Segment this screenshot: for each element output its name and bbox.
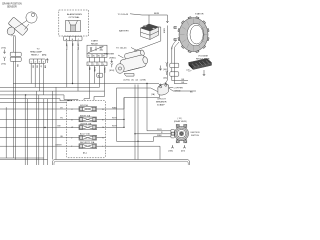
svg-text:86: 86 xyxy=(98,56,100,58)
starter terminal labels xyxy=(124,80,147,82)
headlamp wire labels xyxy=(31,66,45,69)
svg-text:(3): (3) xyxy=(131,80,134,82)
sensor inline connector 2 xyxy=(10,57,21,61)
svg-text:IGNITION: IGNITION xyxy=(191,132,200,134)
svg-text:ALARM SIREN: ALARM SIREN xyxy=(67,13,82,16)
feed to ignition from bus xyxy=(147,84,171,131)
sensor wires to bottom-left bus xyxy=(13,61,15,159)
headlamp wires down xyxy=(31,63,43,95)
crank position sensor label xyxy=(2,3,22,9)
svg-text:SENSOR: SENSOR xyxy=(7,7,17,9)
svg-text:[B+]: [B+] xyxy=(83,152,87,154)
svg-text:TN/GY: TN/GY xyxy=(103,67,105,74)
svg-text:(REAR VIEW): (REAR VIEW) xyxy=(174,120,187,123)
circuit breaker label xyxy=(156,99,167,107)
relay wire labels xyxy=(88,67,105,74)
svg-text:OPTIONAL: OPTIONAL xyxy=(69,16,81,19)
svg-text:(12V8): (12V8) xyxy=(140,80,146,82)
relay wires to bus xyxy=(90,66,105,99)
[R/BK] arrow right of relay xyxy=(110,58,116,63)
battery positive wire down to breaker xyxy=(166,26,167,83)
svg-text:(2): (2) xyxy=(136,80,139,82)
relay pin wires xyxy=(90,57,105,62)
start relay label xyxy=(91,40,99,46)
svg-text:STATOR: STATOR xyxy=(195,13,204,16)
fuse ACCY xyxy=(67,133,106,140)
svg-text:GY/BN: GY/BN xyxy=(76,44,78,51)
fuse LIGHTS xyxy=(67,122,106,129)
fuse SECURITY xyxy=(67,141,106,148)
start relay connector row 2 xyxy=(87,62,107,66)
svg-text:W/BK: W/BK xyxy=(93,67,95,73)
svg-text:4: 4 xyxy=(103,64,104,66)
svg-text:( 31 ): ( 31 ) xyxy=(178,118,183,120)
svg-text:SWITCH: SWITCH xyxy=(191,135,199,137)
fuse rows left wires xyxy=(0,109,67,146)
bus D wrap into fuse box top xyxy=(0,95,78,100)
siren wires down xyxy=(67,41,78,84)
bus F xyxy=(0,102,67,104)
circuit breaker xyxy=(157,82,169,95)
wire breaker to regulator xyxy=(169,88,196,91)
starter flange xyxy=(116,64,134,76)
security wire right xyxy=(106,146,161,159)
Y arrow label [TN] xyxy=(2,57,7,66)
bus C xyxy=(0,90,105,92)
battery positive riser xyxy=(148,15,150,24)
bottom left wires xyxy=(0,158,48,160)
battery right wire to starter xyxy=(134,27,161,51)
[GY] up arrow right of relay xyxy=(110,63,115,72)
bus E wrap into fuse box top xyxy=(0,99,72,101)
arrow above connector2 xyxy=(164,71,169,80)
bus B xyxy=(0,86,100,88)
extra wrap stubs into fuse top xyxy=(84,91,105,100)
headlamp arrow xyxy=(46,58,48,63)
fuse left wire labels xyxy=(56,107,64,146)
svg-text:[BN]: [BN] xyxy=(42,55,47,57)
crank position sensor xyxy=(6,12,38,37)
svg-text:3: 3 xyxy=(98,64,99,66)
siren connector xyxy=(64,36,83,41)
svg-text:PAGE 2: PAGE 2 xyxy=(31,54,40,57)
svg-text:GN/GY: GN/GY xyxy=(65,44,67,51)
TO HEADLAMP label xyxy=(30,49,47,57)
start relay pin row xyxy=(87,54,107,58)
svg-text:R/GY: R/GY xyxy=(157,129,163,131)
leader lines to starter xyxy=(118,48,139,59)
svg-text:85: 85 xyxy=(93,56,95,58)
regulator down arrow xyxy=(203,70,205,76)
voltage regulator xyxy=(186,59,212,72)
svg-text:87: 87 xyxy=(103,56,105,58)
svg-text:BATTERY: BATTERY xyxy=(119,30,129,33)
svg-text:BK/R: BK/R xyxy=(154,13,160,15)
BK labels regulator xyxy=(182,79,194,93)
svg-text:R/GY: R/GY xyxy=(112,118,118,120)
[TN] arrow label top-left xyxy=(2,48,7,54)
down arrow left of connectors xyxy=(159,66,161,71)
battery xyxy=(141,24,159,40)
svg-text:2: 2 xyxy=(93,64,94,66)
rear view label xyxy=(174,118,187,123)
mid verticals to bottom xyxy=(135,85,138,160)
svg-text:TO 102-46: TO 102-46 xyxy=(116,48,127,50)
wire loop below starter xyxy=(117,88,158,141)
ignition switch label xyxy=(191,132,200,137)
svg-text:(7A): (7A) xyxy=(151,93,155,96)
alarm siren optional box xyxy=(59,10,89,36)
svg-text:[46]: [46] xyxy=(164,78,168,80)
svg-text:COPPER: COPPER xyxy=(174,87,184,89)
svg-text:STARTER: STARTER xyxy=(104,53,114,56)
bus junction dots xyxy=(25,83,148,142)
svg-text:R/GY: R/GY xyxy=(112,126,118,128)
ignition wire labels xyxy=(157,129,163,137)
svg-text:[46]: [46] xyxy=(164,69,168,71)
svg-text:HEADLAMP: HEADLAMP xyxy=(30,51,43,54)
battery feed down arrow xyxy=(166,15,168,23)
wire label BK xyxy=(16,65,18,68)
svg-text:BN/GY: BN/GY xyxy=(56,145,63,147)
fuse box right wires xyxy=(106,95,160,128)
verticals to bottom left xyxy=(6,87,56,165)
siren wire labels xyxy=(65,44,78,51)
wires between stator connectors xyxy=(172,68,175,72)
fuse INSTR xyxy=(67,114,106,121)
svg-text:1: 1 xyxy=(88,64,89,66)
svg-text:STUD: STUD xyxy=(175,90,181,92)
svg-text:BREAKER: BREAKER xyxy=(156,101,167,104)
sensor inline connector 1 xyxy=(10,52,21,56)
svg-text:TO: TO xyxy=(37,49,40,51)
svg-text:VOLTAGE: VOLTAGE xyxy=(198,55,209,58)
svg-text:[E16]: [E16] xyxy=(110,70,115,72)
GN GY arrows below ignition xyxy=(169,145,186,153)
regulator input wires xyxy=(172,76,188,83)
ignition switch connector xyxy=(172,124,189,142)
headlamp connector xyxy=(29,59,45,63)
svg-text:[R/BK]: [R/BK] xyxy=(110,58,116,60)
voltage regulator label xyxy=(196,55,210,61)
sensor wires xyxy=(13,37,15,53)
copper stud label xyxy=(174,87,184,92)
wires to ignition switch xyxy=(117,134,171,142)
svg-text:30 AMP: 30 AMP xyxy=(157,104,165,107)
stator connector 1 xyxy=(170,63,179,67)
wire from label to battery feed xyxy=(130,14,167,15)
svg-text:R/BK: R/BK xyxy=(157,135,162,137)
svg-text:30: 30 xyxy=(88,56,90,58)
[46] arrow left of connector 1 xyxy=(164,62,169,71)
pointer line to stud xyxy=(167,86,173,88)
single pin connector A xyxy=(97,73,103,77)
ignition left connector pins xyxy=(171,130,175,138)
starter motor xyxy=(118,49,149,72)
svg-text:[TN]: [TN] xyxy=(2,64,7,66)
svg-text:R/BK: R/BK xyxy=(112,107,117,109)
svg-text:CRANK POSITION: CRANK POSITION xyxy=(2,3,22,6)
siren icon xyxy=(66,21,81,32)
svg-text:CIRCUIT: CIRCUIT xyxy=(157,99,167,101)
stator wires down xyxy=(172,40,179,63)
alarm siren label xyxy=(67,13,82,19)
svg-text:(12V6): (12V6) xyxy=(124,80,130,82)
fuse box dashed border xyxy=(67,100,106,158)
svg-text:[GY]: [GY] xyxy=(181,151,185,153)
stator connector 2 xyxy=(170,72,179,76)
svg-text:TO 103-48: TO 103-48 xyxy=(118,14,129,16)
svg-text:START: START xyxy=(91,40,99,43)
stator xyxy=(174,17,209,53)
fuse IGN xyxy=(67,104,106,111)
svg-text:[TN]: [TN] xyxy=(2,48,7,50)
svg-text:[GN]: [GN] xyxy=(169,151,174,153)
main bus wire A (battery feed bus) xyxy=(13,84,160,86)
svg-text:BK/R: BK/R xyxy=(162,29,164,34)
bottom frame box xyxy=(53,160,190,166)
start relay box xyxy=(87,45,107,54)
svg-text:W: W xyxy=(40,66,42,68)
right wire labels xyxy=(112,107,118,127)
